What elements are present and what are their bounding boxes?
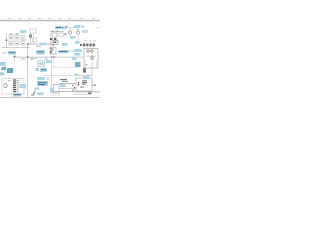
relay coil circle bbox=[91, 50, 93, 52]
lamp stem down L2 bbox=[77, 34, 80, 41]
connector label C403 bbox=[70, 36, 76, 39]
lamp box mid bbox=[38, 61, 45, 67]
wire vertical right bbox=[91, 62, 94, 76]
module inner speck bbox=[86, 63, 88, 66]
wire faint vertical bbox=[13, 57, 16, 62]
wire horizontal br2 bbox=[74, 93, 88, 96]
label text bbox=[59, 51, 68, 52]
tick marks bbox=[73, 85, 76, 91]
connector label C401 bbox=[74, 25, 80, 28]
junction dots bbox=[52, 31, 53, 32]
title text specks above rule bbox=[8, 17, 95, 20]
wire stubs down to boxes bbox=[51, 32, 53, 34]
control module box right bbox=[84, 49, 98, 69]
bottom rule wire bbox=[0, 96, 100, 99]
label text bbox=[9, 51, 15, 54]
label text bbox=[14, 94, 21, 95]
hatched block inside bbox=[82, 80, 87, 84]
switch inner marks bbox=[53, 42, 57, 43]
teal component blob right bbox=[75, 62, 81, 67]
wire horizontal under fuse grid bbox=[2, 46, 30, 49]
dark smudge bbox=[88, 93, 92, 95]
connector label small bbox=[30, 58, 34, 60]
connector label C70 bbox=[74, 74, 78, 77]
connector label C201 bbox=[20, 30, 27, 33]
motor box M1 bbox=[50, 48, 56, 55]
splice blob D bbox=[0, 72, 4, 75]
connector label C80 bbox=[20, 84, 27, 88]
splice blob B bbox=[2, 67, 7, 70]
lamp stem down L1 bbox=[69, 34, 72, 36]
motor circle bbox=[51, 48, 53, 50]
wire faint horizontal lower 2 bbox=[44, 74, 78, 77]
wire inside module bbox=[86, 55, 96, 58]
pin dashes below resistors bbox=[84, 47, 94, 49]
text speck bbox=[65, 33, 67, 36]
splice blob C bbox=[7, 68, 13, 73]
main bus wire horizontal bbox=[12, 56, 84, 59]
dark mark bbox=[80, 44, 82, 46]
wire horizontal top right bbox=[62, 27, 78, 30]
fuse block grid left bbox=[9, 35, 25, 45]
connector label C21 bbox=[36, 50, 45, 55]
motor dark bar bbox=[50, 51, 51, 53]
connector label C402 bbox=[82, 30, 88, 33]
wire vertical from bus 2 bbox=[53, 58, 56, 68]
label text bbox=[38, 82, 47, 83]
connector label C90 bbox=[37, 77, 45, 80]
wire faint b4 bbox=[50, 94, 60, 97]
junction dot trunk-bus bbox=[27, 56, 29, 58]
wire through resistors bbox=[82, 45, 96, 48]
label text bbox=[37, 51, 44, 52]
dashed pin lines bbox=[84, 60, 87, 67]
label text bbox=[36, 45, 41, 48]
contact box bbox=[91, 57, 93, 59]
sensor box bbox=[53, 84, 59, 93]
bus wire bbox=[50, 30, 64, 33]
pump dots bbox=[78, 82, 79, 86]
marks right of box bbox=[93, 84, 95, 86]
relay box small bbox=[33, 38, 37, 42]
relay box upper mid bbox=[30, 29, 36, 33]
connector label C51 bbox=[75, 53, 81, 56]
terminal strip hatched bbox=[13, 80, 16, 94]
wire vertical right of box bbox=[91, 78, 94, 92]
diode D1 bbox=[30, 35, 32, 37]
wire stub right edge bbox=[96, 27, 100, 30]
connector dark blob bbox=[50, 38, 52, 40]
connector label C60 bbox=[46, 60, 52, 63]
faint label under bus right bbox=[45, 58, 49, 60]
wire vertical left bbox=[5, 33, 8, 48]
connector label faint right bbox=[69, 50, 75, 52]
junction dot bbox=[6, 39, 8, 41]
connector label inside bbox=[39, 62, 44, 65]
connector label C30 wide bbox=[58, 50, 69, 53]
text speck left of C12 bbox=[3, 52, 7, 55]
lamp L1 bbox=[68, 28, 71, 34]
text row above resistors bbox=[84, 40, 96, 43]
text specks bbox=[64, 33, 67, 36]
connector label C91 big bbox=[37, 81, 48, 86]
connector label C93 bbox=[37, 92, 44, 95]
connector label C100 tall bbox=[50, 87, 53, 93]
wire vertical short bbox=[83, 64, 86, 70]
wire horizontal b2 bbox=[59, 87, 76, 90]
connector label C110 bbox=[40, 43, 47, 46]
connector label C305 bbox=[62, 43, 68, 46]
text speck near bus bbox=[35, 57, 38, 60]
module box U2 bbox=[52, 33, 57, 37]
connector dark blob bbox=[54, 38, 56, 40]
wire horizontal right bbox=[74, 74, 92, 77]
abs module box bottom right bbox=[76, 78, 92, 91]
resistor R1 bbox=[83, 44, 85, 47]
terminal strip second bbox=[16, 80, 18, 94]
splice blob A bbox=[0, 62, 6, 66]
junction dot trunk bbox=[27, 43, 29, 45]
connector label bank top center bbox=[55, 26, 61, 29]
connector label C31 bbox=[72, 57, 77, 60]
wire faint horizontal lower bbox=[53, 66, 78, 69]
resistor R2 bbox=[86, 44, 88, 47]
module box U3 bbox=[59, 33, 64, 37]
dark component symbol bbox=[83, 68, 86, 73]
washer motor box bottom left bbox=[2, 79, 24, 95]
connector label C404 bbox=[75, 41, 80, 44]
connector label C61 bbox=[40, 68, 47, 72]
small symbol left of label bbox=[36, 68, 38, 70]
wire horizontal b1 bbox=[59, 82, 76, 85]
wire horizontal mid bbox=[28, 43, 52, 46]
fuse text specks bbox=[10, 34, 25, 44]
connector label C81 bbox=[13, 93, 22, 97]
label text dark bbox=[56, 27, 63, 28]
resistor R4 bbox=[93, 44, 95, 47]
inner marks bbox=[80, 87, 84, 88]
switch box S1 bbox=[52, 41, 58, 45]
connector label C92 bbox=[35, 87, 40, 89]
wire horizontal b3 bbox=[53, 90, 76, 93]
switch symbol marks bbox=[31, 91, 35, 96]
text blob 2 bbox=[62, 81, 68, 82]
horizontal rule upper bbox=[0, 19, 100, 22]
connector label C50 bbox=[75, 49, 83, 52]
resistor R3 bbox=[90, 44, 92, 47]
wire vertical small bbox=[34, 88, 37, 96]
motor M2 double circle bbox=[4, 83, 7, 87]
label text bbox=[41, 69, 46, 70]
long vertical trunk wire bbox=[26, 44, 29, 97]
text blob 1 bbox=[60, 79, 67, 80]
wire vertical center bbox=[49, 33, 52, 49]
junction J1 bbox=[14, 56, 16, 58]
connector label C101 bbox=[60, 84, 66, 87]
wire vertical inside module bbox=[91, 52, 94, 57]
wire vertical bbox=[32, 34, 35, 44]
text speck bbox=[66, 25, 69, 28]
horizontal rule lower bbox=[0, 19, 100, 22]
text speck bbox=[8, 79, 11, 82]
junction dot bbox=[53, 45, 54, 46]
connector label C12 left bbox=[8, 51, 16, 55]
wire vertical from bus bbox=[50, 58, 53, 88]
junction dots on bus bbox=[51, 56, 52, 57]
wire vertical bbox=[29, 33, 32, 44]
wire horizontal br1 bbox=[74, 91, 100, 94]
relay K1 bbox=[87, 50, 89, 52]
connector label small faint bbox=[46, 77, 50, 80]
lamp L2 bbox=[76, 28, 79, 34]
connector label C110b bbox=[83, 76, 90, 79]
text speck under bus left bbox=[21, 57, 26, 60]
